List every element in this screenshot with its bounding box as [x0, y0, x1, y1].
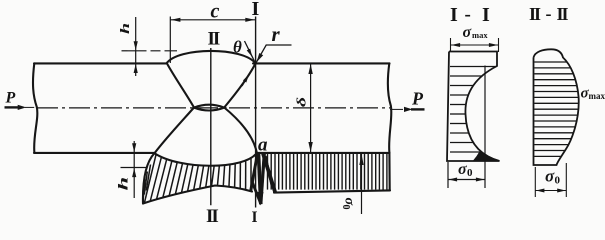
horizontal centerline — [37, 107, 390, 109]
svg-text:-: - — [465, 4, 471, 25]
bottom cap sag curve (crescent upper boundary) — [155, 153, 257, 166]
hatch: crescent — [143, 155, 251, 203]
groove face upper-left — [167, 64, 194, 108]
sigma max dimension — [451, 38, 499, 52]
svg-text:0: 0 — [555, 175, 561, 187]
P arrow left — [5, 106, 21, 108]
svg-text:h: h — [116, 177, 131, 191]
groove face lower-right — [224, 108, 257, 153]
II-II sigma0 dimension — [535, 163, 566, 197]
plate left break edge — [33, 63, 37, 152]
weld top cap — [167, 51, 256, 63]
svg-text:c: c — [211, 1, 220, 23]
svg-text:II: II — [529, 4, 541, 24]
P arrow right — [390, 108, 403, 110]
groove face lower-left + extension to crescent tip — [143, 108, 194, 204]
sigma0 arrow under strip — [361, 154, 363, 214]
angle theta tangent line and arrows — [242, 41, 256, 86]
svg-text:I: I — [252, 0, 260, 20]
svg-text:0: 0 — [467, 167, 473, 179]
svg-text:σ: σ — [545, 167, 555, 186]
svg-text:II: II — [206, 206, 218, 224]
section line I — [255, 17, 257, 208]
I-I hatch — [450, 67, 496, 153]
svg-text:I: I — [252, 209, 258, 224]
plate right break edge — [388, 63, 392, 190]
radius r leader — [256, 45, 291, 63]
dimension h bottom — [121, 141, 147, 198]
label sigma0 under strip (rotated) — [340, 198, 357, 210]
svg-text:P: P — [411, 89, 424, 109]
svg-text:δ: δ — [294, 97, 309, 107]
hatch: sigma0 strip — [268, 154, 387, 190]
plate bottom edge — [34, 152, 155, 154]
svg-text:θ: θ — [233, 38, 242, 57]
stress spike at toe a — [251, 154, 275, 205]
dimension delta (plate thickness) — [310, 64, 312, 152]
svg-text:a: a — [258, 135, 268, 156]
svg-text:σ: σ — [458, 161, 467, 178]
svg-text:0: 0 — [340, 205, 351, 210]
svg-text:-: - — [546, 4, 552, 24]
I-I sigma0 baseline vertical — [448, 66, 485, 189]
II-II distribution shape — [534, 49, 579, 165]
groove face upper-right — [224, 64, 255, 108]
svg-text:II: II — [557, 4, 569, 24]
svg-text:σ: σ — [463, 24, 472, 41]
II-II hatch — [534, 62, 578, 156]
crescent lower boundary — [143, 186, 252, 204]
svg-text:P: P — [5, 90, 16, 107]
svg-text:I: I — [450, 4, 458, 26]
svg-text:I: I — [482, 4, 490, 26]
svg-text:II: II — [208, 29, 220, 50]
svg-text:h: h — [118, 23, 132, 34]
sigma0 strip bottom edge — [274, 190, 390, 192]
svg-text:max: max — [589, 91, 605, 101]
svg-text:r: r — [272, 22, 281, 46]
weld root lens — [194, 105, 224, 111]
I-I bottom wedge fill — [473, 151, 500, 161]
dimension c — [170, 17, 255, 64]
plate top edge — [34, 62, 166, 64]
section line II (vertical centerline) — [210, 48, 212, 205]
svg-text:max: max — [472, 30, 488, 40]
I-I distribution shape — [447, 52, 500, 162]
dimension h top — [122, 17, 178, 76]
